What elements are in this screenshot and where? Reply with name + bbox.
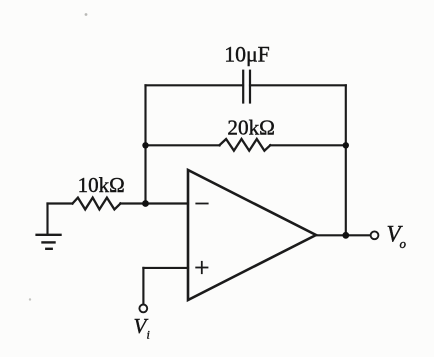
ground symbol (37, 235, 61, 249)
wire left vertical feedback (144, 85, 146, 203)
svg-text:20kΩ: 20kΩ (227, 116, 275, 140)
wire Vi vertical (142, 268, 144, 305)
wire 10k left lead (48, 202, 73, 204)
op-amp plus sign (196, 262, 207, 273)
wire 20k right lead (270, 144, 346, 146)
svg-text:10kΩ: 10kΩ (78, 173, 125, 197)
svg-text:o: o (400, 236, 407, 251)
wire right vertical feedback (345, 85, 347, 235)
wire ground vertical (46, 204, 48, 234)
resistor R1 10k zigzag (73, 198, 121, 210)
op-amp minus sign (196, 203, 207, 205)
terminal Vi open circle (139, 305, 147, 313)
svg-text:10μF: 10μF (224, 43, 270, 67)
wire 20k left lead (146, 144, 220, 146)
resistor R2 20k zigzag (219, 139, 270, 151)
wire noninverting input horizontal (143, 267, 188, 269)
faint scan speckle top (85, 13, 88, 16)
wire top feedback right segment (250, 84, 346, 86)
wire output (316, 234, 370, 236)
op-amp U1 triangle (188, 170, 316, 300)
junction node at left vertical / 20k (142, 142, 148, 148)
faint scan speckle left (29, 298, 31, 300)
terminal Vo open circle (371, 231, 379, 239)
junction node at inverting input (142, 200, 149, 207)
wire top feedback left segment (146, 84, 244, 86)
junction node at output (342, 232, 349, 239)
junction node at right vertical / 20k (343, 142, 349, 148)
wire 10k right lead to inverting input (120, 202, 188, 204)
capacitor C1 10uF plates (243, 71, 250, 103)
svg-text:i: i (147, 328, 150, 342)
